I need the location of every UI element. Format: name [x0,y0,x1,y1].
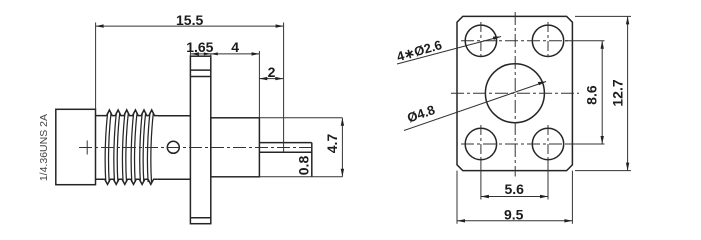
svg-text:12.7: 12.7 [610,79,626,106]
svg-text:0.8: 0.8 [296,156,312,176]
svg-text:4∗Ø2.6: 4∗Ø2.6 [395,37,444,64]
svg-text:8.6: 8.6 [584,85,600,105]
svg-text:9.5: 9.5 [504,207,524,223]
svg-text:5.6: 5.6 [505,181,525,197]
svg-text:1.65: 1.65 [186,39,213,55]
svg-text:15.5: 15.5 [176,12,203,28]
svg-text:4: 4 [231,39,239,55]
svg-text:4.7: 4.7 [324,134,340,154]
svg-text:2: 2 [268,64,276,80]
svg-text:Ø4.8: Ø4.8 [405,102,437,125]
svg-text:1/4.36UNS 2A: 1/4.36UNS 2A [38,114,50,181]
